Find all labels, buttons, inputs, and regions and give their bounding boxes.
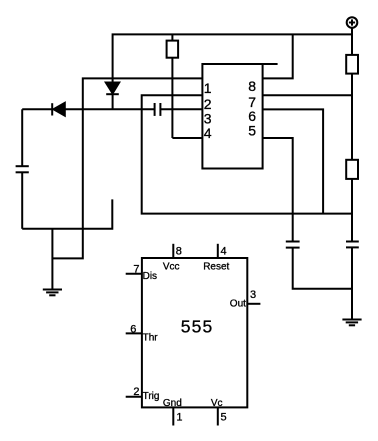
wire: bottom-left bus with stub up (22, 199, 112, 228)
svg-text:4: 4 (221, 246, 227, 258)
capacitor C2 (left, vertical) (16, 166, 29, 172)
ground (left) (43, 290, 62, 296)
svg-text:Dis: Dis (143, 271, 157, 282)
wire: right rail between R2 and R3 (351, 74, 353, 160)
svg-text:8: 8 (176, 246, 182, 258)
svg-text:Reset: Reset (203, 262, 229, 273)
svg-text:555: 555 (181, 317, 214, 337)
svg-text:8: 8 (248, 78, 256, 94)
capacitor C3 (bottom middle, vertical) (286, 242, 300, 248)
wire: capacitor C2 down to bottom-left bus (21, 172, 23, 229)
svg-text:Vcc: Vcc (163, 262, 180, 273)
wire: top horizontal rail with elbow down to diode D1 (113, 34, 352, 82)
wire: pin 2 row, down and long wire right to rail (142, 95, 352, 213)
capacitor C1 (horizontal, on pin 3 row) (155, 103, 161, 116)
svg-text:7: 7 (133, 264, 139, 276)
svg-text:Vc: Vc (211, 398, 223, 409)
wire: pin 8 row up to top rail (263, 34, 293, 78)
wire: pin 3 row from left rail to diode D2 (22, 108, 52, 110)
ground (right) (342, 320, 361, 326)
svg-text:1: 1 (176, 412, 182, 424)
power supply V+ (347, 17, 358, 28)
pin 1 Gnd stub (bottom) (172, 407, 174, 425)
pin 3 Out stub (right) (247, 303, 260, 305)
resistor R1 (top left, vertical) (167, 34, 179, 57)
svg-text:4: 4 (204, 125, 212, 141)
svg-text:6: 6 (130, 323, 136, 335)
wire: capacitor C1 to IC pin 3 (160, 108, 202, 110)
pin 8 Vcc stub (top) (172, 244, 174, 258)
555 timer block U2 (142, 258, 247, 407)
IC U1 DIP-8 outline (202, 64, 277, 169)
svg-text:Gnd: Gnd (163, 398, 182, 409)
capacitor C4 (right, vertical) (346, 242, 359, 248)
pin 2 Trig stub (left) (126, 396, 142, 398)
wire: left rail down to capacitor C2 (21, 109, 23, 166)
wire: capacitor C3 bottom to right rail (293, 248, 352, 289)
wire: diode D2 to capacitor C1 (65, 108, 155, 110)
svg-text:5: 5 (248, 122, 256, 138)
wire: V+ lead down to top rail and right rail to resistor (351, 28, 353, 55)
svg-text:Trig: Trig (143, 391, 160, 402)
wire: pin 7 row to right rail (263, 94, 352, 96)
resistor R2 (right top, vertical) (346, 55, 358, 74)
pin 6 Thr stub (left) (126, 332, 142, 334)
svg-text:Thr: Thr (143, 333, 159, 344)
wire: pin 1 row, down left column to bottom jog (52, 78, 202, 258)
resistor R3 (right middle, vertical) (346, 160, 358, 179)
svg-text:2: 2 (133, 386, 139, 398)
wire: right rail R3 to capacitor C4 (351, 179, 353, 242)
diode D2 (pointing left) (52, 103, 65, 116)
pin 7 Dis stub (left) (126, 273, 142, 275)
wire: capacitor C4 down to ground (351, 247, 353, 319)
wire: pin 6 row, down to long wire (263, 109, 324, 213)
wire: pin 5 row down to capacitor C3 (263, 138, 293, 242)
svg-text:Out: Out (230, 299, 246, 310)
wire: R1 bottom down to pin 4 row (171, 58, 173, 138)
wire: bus down to ground (51, 229, 53, 290)
svg-text:5: 5 (221, 412, 227, 424)
svg-text:1: 1 (204, 80, 212, 96)
wire: pin 4 row stub (172, 137, 202, 139)
pin 5 Vc stub (bottom) (217, 407, 219, 425)
svg-text:3: 3 (250, 289, 256, 301)
pin 4 Reset stub (top) (217, 244, 219, 258)
diode D1 (pointing down) (106, 83, 119, 110)
